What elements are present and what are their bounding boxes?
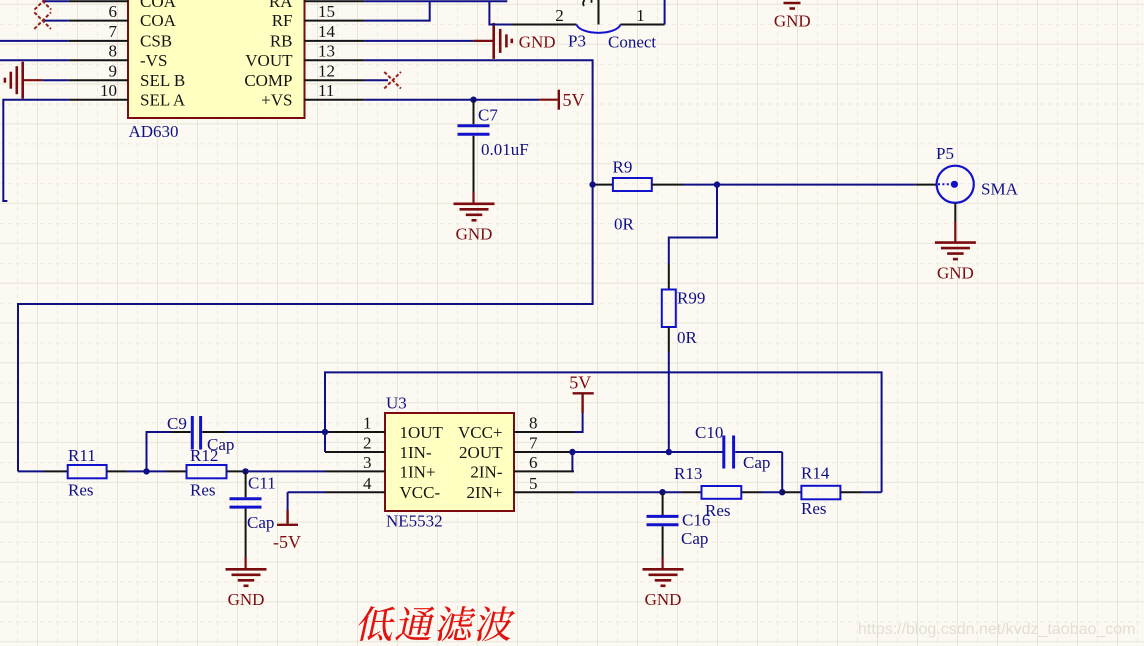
svg-text:7: 7 xyxy=(109,22,118,41)
svg-text:Res: Res xyxy=(190,481,216,500)
svg-text:2: 2 xyxy=(363,434,372,453)
junction on +VS net at C7 xyxy=(470,97,476,103)
svg-text:R11: R11 xyxy=(68,446,96,465)
svg-text:11: 11 xyxy=(318,81,334,100)
wire 2OUT to 2IN- feedback xyxy=(572,452,723,471)
svg-text:Res: Res xyxy=(801,499,827,518)
svg-text:GND: GND xyxy=(456,225,493,244)
wire RF pin15 to RA row xyxy=(364,1,429,20)
wire R9 node down to R99 xyxy=(669,185,717,264)
svg-text:8: 8 xyxy=(109,42,118,61)
no-ERC marker on COA pin6 wire xyxy=(34,12,51,29)
ground symbol GND at RB (rotated right) xyxy=(473,23,555,59)
wire R14 to feedback loop xyxy=(840,491,861,493)
svg-text:COA: COA xyxy=(140,0,177,11)
svg-text:0.01uF: 0.01uF xyxy=(481,140,529,159)
resistor R14 xyxy=(801,486,840,500)
svg-text:C16: C16 xyxy=(682,511,710,530)
svg-text:2: 2 xyxy=(555,6,564,25)
wire COA pin5 row xyxy=(43,0,69,2)
svg-text:U3: U3 xyxy=(386,394,407,413)
wire SEL A pin10 row xyxy=(3,100,68,201)
svg-text:COMP: COMP xyxy=(244,71,292,90)
svg-text:C10: C10 xyxy=(695,423,723,442)
power port -5V xyxy=(273,492,301,552)
svg-text:1IN+: 1IN+ xyxy=(400,462,436,481)
wire R9 right xyxy=(652,184,683,186)
junction at U3 pin1 xyxy=(322,429,328,435)
wire RB pin14 row xyxy=(364,40,473,42)
resistor R11 xyxy=(68,465,107,478)
svg-text:5V: 5V xyxy=(569,373,591,393)
op-amp U3 body xyxy=(385,413,514,511)
wire -VS pin8 row xyxy=(0,59,69,61)
svg-text:COA: COA xyxy=(140,11,177,30)
svg-text:1: 1 xyxy=(363,414,372,433)
capacitor C11 xyxy=(230,471,262,557)
wire to R11 xyxy=(18,470,44,472)
P5 dashed lead xyxy=(938,183,951,185)
svg-text:R99: R99 xyxy=(677,289,705,308)
U3 pin names xyxy=(400,423,504,502)
svg-text:5: 5 xyxy=(529,474,538,493)
wire R12 to U3 pin3 xyxy=(227,470,246,472)
svg-text:1: 1 xyxy=(636,6,645,25)
connector P3 center pin xyxy=(598,0,600,25)
svg-text:1IN-: 1IN- xyxy=(400,443,432,462)
svg-text:GND: GND xyxy=(228,590,265,609)
svg-text:P3: P3 xyxy=(568,32,586,51)
svg-text:14: 14 xyxy=(318,22,336,41)
svg-text:SMA: SMA xyxy=(981,180,1019,199)
svg-text:5V: 5V xyxy=(563,90,585,110)
junction at R9 left xyxy=(589,181,595,187)
U3 right pin stubs xyxy=(514,431,574,433)
AD630 right pin stubs xyxy=(305,0,365,2)
junction at R9 right xyxy=(714,181,720,187)
svg-text:GND: GND xyxy=(519,33,556,52)
svg-text:VOUT: VOUT xyxy=(245,51,293,70)
no-ERC marker on COA pin5 wire xyxy=(35,0,52,10)
wire R9 to P5 xyxy=(717,184,915,186)
junction R12 right node xyxy=(242,468,248,474)
connector P3 pin 2 wire xyxy=(489,1,512,24)
svg-text:R9: R9 xyxy=(613,158,633,177)
svg-text:7: 7 xyxy=(529,434,538,453)
junction C10-R13-R14 node xyxy=(779,489,785,495)
svg-text:2OUT: 2OUT xyxy=(459,443,503,462)
wire RA pin row to P3 xyxy=(364,0,507,2)
wire U3 pin4 to -5V xyxy=(288,491,325,493)
wire SEL B pin9 row xyxy=(43,79,69,81)
svg-text:2IN+: 2IN+ xyxy=(466,483,502,502)
svg-text:12: 12 xyxy=(318,61,335,80)
svg-text:Cap: Cap xyxy=(207,435,234,454)
ground GND below C11 xyxy=(226,558,267,610)
ground symbol at SEL B (rotated left) xyxy=(5,62,43,99)
junction R11-R12 node xyxy=(143,468,149,474)
junction C16 node xyxy=(659,489,665,495)
svg-text:1OUT: 1OUT xyxy=(400,423,444,442)
svg-text:VCC+: VCC+ xyxy=(458,423,503,442)
svg-text:-VS: -VS xyxy=(140,51,167,70)
P3 cut-off marks at top xyxy=(583,0,591,6)
svg-text:P5: P5 xyxy=(936,144,954,163)
svg-text:GND: GND xyxy=(645,590,682,609)
wire P3 pin1 up xyxy=(664,0,666,25)
svg-text:https://blog.csdn.net/kvdz_tao: https://blog.csdn.net/kvdz_taobao_com xyxy=(858,621,1136,638)
capacitor C9 feedback xyxy=(147,416,326,471)
U3 pin numbers left xyxy=(363,414,372,493)
svg-text:VCC-: VCC- xyxy=(400,483,441,502)
svg-text:0R: 0R xyxy=(614,215,635,234)
svg-text:RB: RB xyxy=(270,32,293,51)
feedback loop wire top xyxy=(325,372,882,492)
svg-text:Conect: Conect xyxy=(608,33,656,52)
wire R99 bottom to 2OUT net xyxy=(668,327,670,352)
junction at U3 pin7 xyxy=(569,449,575,455)
svg-text:NE5532: NE5532 xyxy=(386,512,443,531)
svg-text:9: 9 xyxy=(109,61,118,80)
resistor R9 xyxy=(613,178,652,191)
svg-text:SEL B: SEL B xyxy=(140,71,185,90)
svg-text:Cap: Cap xyxy=(247,513,274,532)
svg-text:6: 6 xyxy=(109,2,118,21)
svg-text:RA: RA xyxy=(269,0,293,11)
svg-text:CSB: CSB xyxy=(140,32,172,51)
connector P3 pin 2 lead xyxy=(511,24,577,26)
resistor R99 xyxy=(662,290,676,328)
svg-text:Res: Res xyxy=(68,481,94,500)
svg-text:2IN-: 2IN- xyxy=(470,462,502,481)
red title text low-pass filter xyxy=(358,606,515,641)
capacitor C7 xyxy=(458,100,490,192)
svg-text:10: 10 xyxy=(100,81,117,100)
ground symbol GND top right (partial) xyxy=(774,3,811,31)
AD630 pin numbers 6-10 xyxy=(100,2,118,100)
svg-text:-5V: -5V xyxy=(273,532,301,552)
svg-text:3: 3 xyxy=(363,453,372,472)
wire +VS pin11 row xyxy=(364,99,539,101)
AD630 left pin stubs xyxy=(69,0,128,2)
svg-text:4: 4 xyxy=(363,474,372,493)
svg-text:Cap: Cap xyxy=(743,453,770,472)
P5 center pad xyxy=(951,181,958,188)
wire VOUT to R9 xyxy=(593,184,613,186)
U3 left pin stubs xyxy=(325,431,385,433)
capacitor C16 xyxy=(647,492,679,557)
wire R13 to R14 xyxy=(741,491,761,493)
wire U3 pin5 row xyxy=(574,491,663,493)
junction R99 on 2OUT net xyxy=(666,449,672,455)
resistor R12 xyxy=(187,465,227,478)
svg-text:C9: C9 xyxy=(167,414,187,433)
svg-text:6: 6 xyxy=(529,453,538,472)
wire VOUT pin13 to R9 and R11 loop xyxy=(18,60,593,471)
wire CSB pin7 row xyxy=(0,40,69,42)
connector P3 pin 1 lead xyxy=(621,24,665,26)
svg-text:C7: C7 xyxy=(478,105,498,124)
svg-text:GND: GND xyxy=(937,263,974,282)
op-amp U? AD630 body xyxy=(128,0,305,118)
svg-text:+VS: +VS xyxy=(261,90,292,109)
svg-text:R13: R13 xyxy=(674,464,702,483)
svg-text:C11: C11 xyxy=(248,474,276,493)
wire R11 to R12 xyxy=(107,470,127,472)
connector P3 arc xyxy=(577,25,621,33)
no-ERC marker on COMP pin12 xyxy=(384,72,401,89)
svg-text:RF: RF xyxy=(272,11,293,30)
wire COMP pin12 stub xyxy=(364,79,388,81)
U3 pin numbers right xyxy=(529,414,538,493)
AD630 pin names xyxy=(140,0,293,109)
wire COA pin6 row xyxy=(43,20,69,22)
svg-text:SEL A: SEL A xyxy=(140,90,186,109)
svg-text:AD630: AD630 xyxy=(129,122,179,141)
ground GND below C16 xyxy=(643,558,684,610)
ground GND below P5 xyxy=(935,203,976,282)
power port 5V at U3 pin8 xyxy=(569,373,593,433)
svg-text:0R: 0R xyxy=(677,328,698,347)
svg-text:GND: GND xyxy=(774,12,811,31)
svg-text:13: 13 xyxy=(318,42,335,61)
ground GND below C7 xyxy=(454,192,495,244)
resistor R13 xyxy=(702,486,742,499)
power port 5V at +VS xyxy=(539,90,584,110)
capacitor C10 xyxy=(724,436,782,493)
connector P5 SMA circle xyxy=(937,166,974,203)
svg-text:Cap: Cap xyxy=(681,529,708,548)
svg-text:8: 8 xyxy=(529,414,538,433)
svg-text:R14: R14 xyxy=(801,464,830,483)
AD630 pin numbers 15-11 xyxy=(318,2,336,100)
svg-text:15: 15 xyxy=(318,2,335,21)
